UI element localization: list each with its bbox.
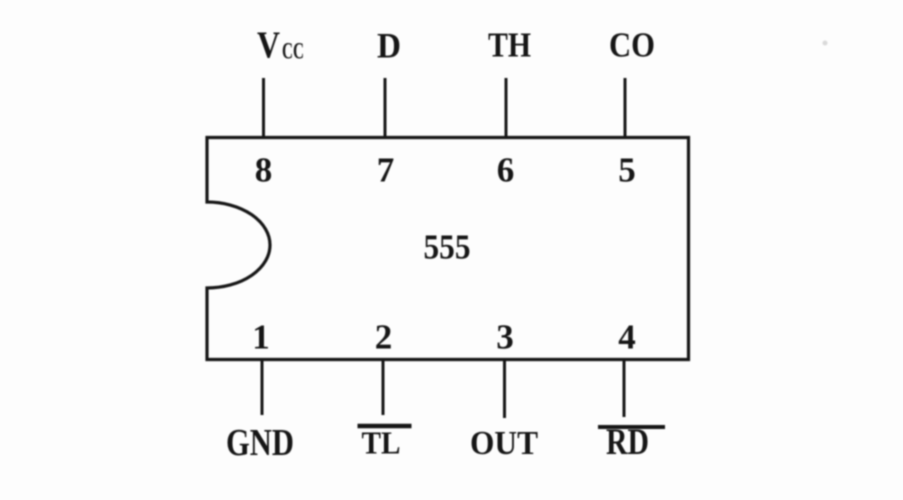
svg-text:D: D [377, 26, 401, 66]
svg-text:6: 6 [497, 151, 515, 190]
svg-text:TH: TH [488, 26, 531, 65]
svg-text:V: V [257, 25, 280, 67]
pin 2 lead wire [382, 360, 385, 415]
pin 5 lead wire [624, 78, 627, 137]
pin 7 lead wire [384, 78, 387, 137]
svg-text:TL: TL [362, 425, 401, 461]
net label Vcc (pin 8) [257, 25, 304, 67]
svg-text:555: 555 [424, 228, 471, 267]
svg-text:3: 3 [496, 318, 514, 357]
net label TL with overline (pin 2) [358, 425, 412, 461]
svg-text:CC: CC [282, 39, 304, 64]
svg-text:4: 4 [618, 318, 636, 357]
svg-text:8: 8 [255, 151, 273, 190]
svg-text:1: 1 [252, 318, 270, 357]
svg-text:CO: CO [609, 26, 655, 65]
svg-text:GND: GND [226, 422, 294, 464]
pin 6 lead wire [505, 78, 508, 137]
svg-text:7: 7 [377, 151, 395, 190]
svg-text:5: 5 [618, 151, 636, 190]
svg-text:2: 2 [375, 318, 393, 357]
net label RD with overline (pin 4) [598, 422, 665, 463]
stray scan speck [823, 41, 828, 46]
pin 3 lead wire [503, 360, 506, 418]
pin 8 lead wire [262, 78, 265, 137]
pin 4 lead wire [623, 360, 626, 417]
op-amp/IC body U1 555 package outline with pin-1 notch [207, 138, 689, 360]
pin 1 lead wire [261, 360, 264, 415]
svg-text:OUT: OUT [470, 425, 538, 462]
